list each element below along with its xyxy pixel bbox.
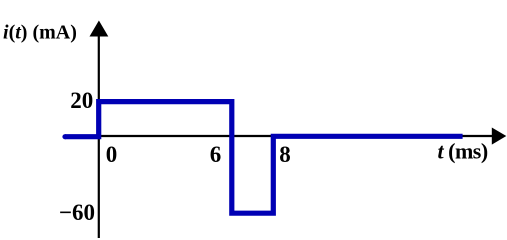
x-axis (98, 135, 493, 137)
svg-text:−60: −60 (59, 200, 95, 225)
y-axis arrowhead (90, 21, 109, 37)
svg-text:0: 0 (106, 142, 118, 167)
svg-text:8: 8 (279, 142, 291, 167)
svg-text:6: 6 (210, 142, 222, 167)
y-axis (98, 30, 100, 238)
x-axis arrowhead (492, 128, 507, 145)
waveform i(t): 0 before t=0, 20mA 0..6ms, -60mA 6..8ms, 0 after (65, 102, 463, 214)
svg-text:20: 20 (70, 88, 93, 113)
svg-text:i(t) (mA): i(t) (mA) (3, 22, 77, 44)
waveform left round cap (62, 134, 67, 139)
svg-text:t (ms): t (ms) (438, 139, 488, 164)
